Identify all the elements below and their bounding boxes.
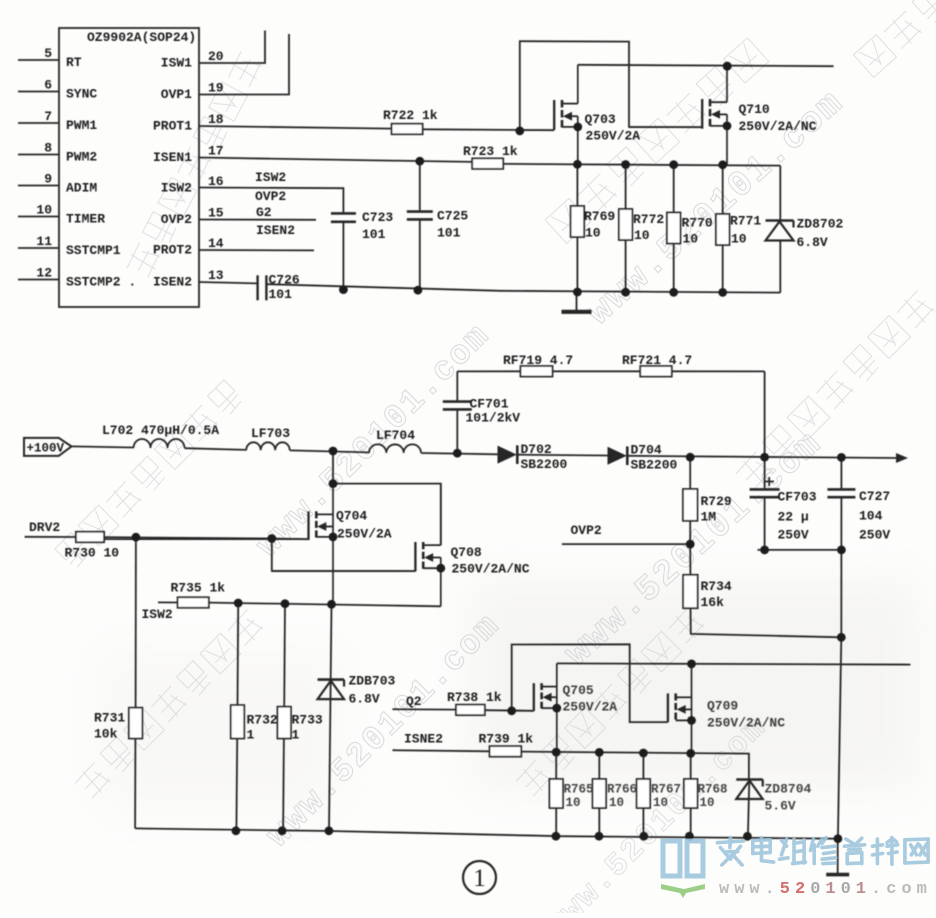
svg-text:ISW1: ISW1	[161, 56, 192, 71]
svg-text:ZD8704: ZD8704	[765, 782, 812, 797]
svg-text:PROT2: PROT2	[153, 243, 192, 258]
svg-text:C723: C723	[362, 210, 393, 225]
svg-text:250V/2A: 250V/2A	[563, 700, 618, 715]
svg-text:10: 10	[566, 796, 581, 810]
svg-text:R739 1k: R739 1k	[479, 732, 534, 747]
svg-text:250V/2A/NC: 250V/2A/NC	[452, 562, 530, 577]
svg-text:OVP2: OVP2	[571, 523, 602, 538]
svg-text:ADIM: ADIM	[66, 181, 97, 196]
svg-text:7: 7	[44, 109, 52, 124]
svg-text:250V/2A/NC: 250V/2A/NC	[739, 119, 817, 134]
svg-text:ISW2: ISW2	[161, 181, 192, 196]
svg-text:14: 14	[208, 236, 224, 251]
svg-text:19: 19	[208, 81, 224, 96]
svg-text:Q703: Q703	[585, 112, 616, 127]
svg-text:10: 10	[634, 228, 650, 243]
svg-text:Q708: Q708	[451, 545, 482, 560]
svg-text:1: 1	[292, 728, 300, 743]
svg-text:OZ9902A(SOP24): OZ9902A(SOP24)	[87, 30, 196, 45]
svg-text:5: 5	[780, 880, 790, 899]
svg-text:R738 1k: R738 1k	[447, 690, 502, 705]
svg-text:8: 8	[44, 141, 52, 156]
svg-text:250V/2A: 250V/2A	[337, 527, 392, 542]
svg-text:R723 1k: R723 1k	[463, 144, 518, 159]
svg-text:ISEN1: ISEN1	[153, 150, 192, 165]
svg-text:R768: R768	[698, 783, 728, 797]
svg-text:o: o	[901, 880, 911, 899]
svg-text:10: 10	[700, 796, 715, 810]
svg-text:10k: 10k	[94, 727, 118, 742]
svg-text:9: 9	[44, 172, 52, 187]
svg-text:13: 13	[208, 268, 224, 283]
svg-text:RF721 4.7: RF721 4.7	[622, 353, 692, 368]
svg-text:ISEN2: ISEN2	[153, 275, 192, 290]
svg-text:15: 15	[208, 206, 224, 221]
svg-text:w: w	[734, 880, 745, 899]
svg-text:5: 5	[44, 46, 52, 61]
svg-text:CF701: CF701	[470, 397, 509, 412]
svg-text:+100V: +100V	[27, 441, 65, 455]
svg-text:1: 1	[247, 728, 255, 743]
svg-text:10: 10	[36, 203, 52, 218]
svg-text:w: w	[719, 880, 730, 899]
svg-text:101: 101	[437, 226, 461, 241]
svg-text:.: .	[871, 880, 881, 899]
svg-text:RT: RT	[66, 55, 82, 70]
svg-text:TIMER: TIMER	[66, 212, 105, 227]
svg-text:11: 11	[36, 234, 52, 249]
svg-text:2: 2	[795, 880, 805, 899]
svg-text:ZDB703: ZDB703	[349, 674, 396, 689]
svg-text:C725: C725	[437, 209, 468, 224]
svg-text:PWM1: PWM1	[66, 118, 97, 133]
svg-text:6: 6	[44, 78, 52, 93]
svg-text:18: 18	[208, 112, 224, 127]
svg-text:1: 1	[825, 880, 835, 899]
svg-text:R735 1k: R735 1k	[171, 581, 226, 596]
svg-text:17: 17	[208, 144, 224, 159]
svg-text:ZD8702: ZD8702	[797, 217, 844, 232]
svg-text:250V: 250V	[859, 528, 890, 543]
svg-text:.: .	[765, 880, 775, 899]
svg-text:SB2200: SB2200	[631, 458, 678, 473]
svg-text:R731: R731	[94, 711, 125, 726]
svg-text:ISW2: ISW2	[142, 607, 173, 622]
svg-text:5.6V: 5.6V	[765, 799, 796, 814]
svg-text:R722 1k: R722 1k	[383, 108, 438, 123]
svg-text:R772: R772	[633, 212, 664, 227]
svg-text:SYNC: SYNC	[66, 87, 97, 102]
svg-text:LF703: LF703	[251, 426, 290, 441]
svg-text:CF703: CF703	[778, 490, 817, 505]
svg-text:250V/2A: 250V/2A	[586, 129, 641, 144]
svg-text:R769: R769	[584, 209, 615, 224]
svg-text:ISNE2: ISNE2	[404, 732, 443, 747]
svg-text:PROT1: PROT1	[153, 119, 192, 134]
svg-text:1: 1	[473, 865, 486, 892]
svg-text:10: 10	[683, 232, 699, 247]
svg-text:250V: 250V	[778, 528, 809, 543]
svg-text:Q705: Q705	[563, 683, 594, 698]
svg-text:R733: R733	[292, 713, 323, 728]
svg-text:Q710: Q710	[739, 102, 770, 117]
svg-text:101: 101	[362, 227, 386, 242]
svg-text:0: 0	[841, 880, 851, 899]
svg-text:R730 10: R730 10	[65, 546, 120, 561]
svg-text:1: 1	[856, 880, 866, 899]
svg-text:10: 10	[585, 226, 601, 241]
svg-text:SSTCMP2 .: SSTCMP2 .	[66, 275, 136, 290]
svg-text:10: 10	[731, 232, 747, 247]
svg-text:1M: 1M	[701, 510, 717, 525]
svg-text:LF704: LF704	[376, 428, 415, 443]
svg-text:20: 20	[208, 49, 224, 64]
svg-text:ISEN2: ISEN2	[256, 223, 295, 238]
svg-text:w: w	[749, 880, 760, 899]
svg-text:104: 104	[859, 509, 883, 524]
svg-text:R732: R732	[247, 713, 278, 728]
svg-text:OVP2: OVP2	[255, 189, 286, 204]
svg-text:Q2: Q2	[406, 694, 422, 709]
svg-text:R766: R766	[607, 783, 637, 797]
svg-text:Q704: Q704	[336, 509, 367, 524]
svg-text:L702 470μH/0.5A: L702 470μH/0.5A	[102, 423, 219, 438]
svg-text:DRV2: DRV2	[29, 520, 60, 535]
svg-text:G2: G2	[256, 205, 272, 220]
svg-text:OVP2: OVP2	[161, 212, 192, 227]
svg-text:10: 10	[653, 796, 668, 810]
svg-text:101: 101	[269, 287, 293, 302]
svg-text:OVP1: OVP1	[161, 87, 192, 102]
svg-text:SSTCMP1: SSTCMP1	[66, 243, 121, 258]
svg-text:6.8V: 6.8V	[349, 692, 380, 707]
svg-text:101/2kV: 101/2kV	[466, 411, 521, 426]
svg-text:250V/2A/NC: 250V/2A/NC	[707, 716, 785, 731]
svg-text:R729: R729	[701, 494, 732, 509]
svg-text:16k: 16k	[701, 595, 725, 610]
svg-text:R765: R765	[564, 783, 594, 797]
svg-text:ISW2: ISW2	[255, 170, 286, 185]
svg-text:R767: R767	[651, 783, 681, 797]
svg-text:22 μ: 22 μ	[778, 510, 809, 525]
svg-text:6.8V: 6.8V	[797, 235, 828, 250]
svg-text:c: c	[886, 880, 896, 899]
svg-text:m: m	[917, 880, 927, 899]
svg-text:12: 12	[36, 266, 52, 281]
svg-text:R771: R771	[730, 214, 761, 229]
svg-text:C727: C727	[859, 489, 890, 504]
svg-text:PWM2: PWM2	[66, 150, 97, 165]
svg-text:RF719 4.7: RF719 4.7	[503, 353, 573, 368]
svg-text:R734: R734	[701, 579, 732, 594]
svg-text:10: 10	[609, 796, 624, 810]
svg-text:SB2200: SB2200	[521, 457, 568, 472]
svg-text:R770: R770	[682, 216, 713, 231]
svg-text:Q709: Q709	[707, 699, 738, 714]
svg-text:0: 0	[810, 880, 820, 899]
